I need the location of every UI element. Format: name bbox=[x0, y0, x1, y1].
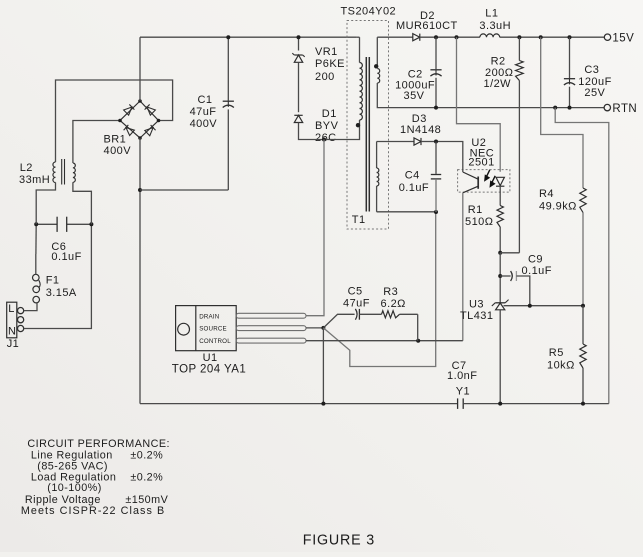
svg-text:47uF: 47uF bbox=[190, 106, 217, 118]
node source junction bbox=[321, 326, 325, 330]
svg-text:510Ω: 510Ω bbox=[465, 216, 493, 228]
wire source to bias return bbox=[323, 212, 435, 367]
svg-text:N: N bbox=[8, 325, 16, 337]
node bridge left vertex bbox=[118, 119, 122, 123]
svg-text:±0.2%: ±0.2% bbox=[130, 471, 163, 483]
diode D1 BYV26C bbox=[294, 115, 302, 122]
svg-text:2501: 2501 bbox=[468, 157, 494, 169]
node opto feed junction bbox=[455, 35, 459, 39]
svg-text:L2: L2 bbox=[20, 162, 33, 174]
svg-text:TOP 204 YA1: TOP 204 YA1 bbox=[172, 364, 246, 376]
svg-text:0.1uF: 0.1uF bbox=[522, 265, 552, 277]
capacitor C5 bbox=[355, 309, 357, 320]
wire TL431 ref line bbox=[504, 305, 584, 307]
svg-text:U1: U1 bbox=[203, 352, 218, 364]
wire fuse to C6 node bbox=[35, 254, 37, 274]
svg-text:C1: C1 bbox=[198, 94, 213, 106]
wire secondary top bbox=[376, 37, 378, 66]
svg-text:400V: 400V bbox=[190, 118, 218, 130]
svg-text:TS204Y02: TS204Y02 bbox=[341, 6, 397, 18]
wire secondary rail to D2 bbox=[377, 36, 413, 38]
capacitor C7 Y1 bbox=[457, 398, 459, 409]
node C3 bottom junction bbox=[568, 106, 572, 110]
node RTN to output-return junction bbox=[553, 106, 557, 110]
inductor L2 common-mode choke bbox=[53, 162, 56, 183]
node DC- / C1 return junction bbox=[138, 188, 142, 192]
node TL431 anode junction bbox=[498, 402, 502, 406]
svg-text:3.3uH: 3.3uH bbox=[479, 20, 511, 32]
wire primary top bbox=[357, 36, 360, 38]
wire source pin to junction bbox=[306, 327, 323, 329]
svg-text:VR1: VR1 bbox=[315, 46, 338, 58]
capacitor C9 bbox=[500, 275, 510, 277]
node clamp top junction bbox=[297, 35, 301, 39]
wire opto collector to bias node bbox=[436, 142, 463, 173]
node D3/C4/opto junction bbox=[434, 140, 438, 144]
terminal 15V bbox=[604, 34, 610, 40]
transformer T1 primary winding bbox=[360, 63, 363, 121]
resistor R1 bbox=[497, 206, 503, 228]
diode D2 MUR610CT bbox=[413, 34, 420, 41]
svg-text:Y1: Y1 bbox=[456, 386, 470, 398]
svg-text:DRAIN: DRAIN bbox=[199, 313, 219, 320]
transformer T1 core bbox=[365, 57, 367, 212]
node C3 top junction bbox=[568, 35, 572, 39]
wire secondary bottom to RTN rail bbox=[377, 83, 604, 108]
wire LED cathode to R1 bbox=[499, 186, 501, 205]
svg-text:FIGURE 3: FIGURE 3 bbox=[303, 532, 375, 548]
svg-text:RTN: RTN bbox=[612, 103, 637, 115]
svg-text:35V: 35V bbox=[404, 90, 425, 102]
node R4/R5 divider junction bbox=[581, 304, 585, 308]
optocoupler U2 dashed boundary bbox=[458, 170, 510, 193]
zener VR1 P6KE200 bbox=[294, 55, 302, 62]
connector J1 bbox=[7, 302, 17, 338]
wire VR1 to D1 bbox=[298, 62, 300, 112]
shunt regulator U3 TL431 bbox=[495, 302, 505, 304]
wire J1-N to C6 right node bbox=[24, 224, 92, 328]
wire C6 right to choke bbox=[73, 182, 92, 224]
optocoupler U2 light arrows bbox=[485, 170, 495, 187]
svg-text:±0.2%: ±0.2% bbox=[130, 449, 163, 461]
wire J1-L to fuse bbox=[24, 303, 37, 310]
fuse F1 bbox=[33, 296, 40, 303]
optocoupler U2 phototransistor bbox=[477, 177, 479, 189]
svg-text:R5: R5 bbox=[549, 347, 564, 359]
ic U1 drain pin bbox=[236, 313, 306, 318]
svg-text:C2: C2 bbox=[408, 68, 423, 80]
node drain junction bbox=[322, 138, 326, 142]
svg-text:Meets CISPR-22 Class B: Meets CISPR-22 Class B bbox=[21, 505, 165, 517]
node C6 left junction bbox=[34, 222, 38, 226]
svg-text:0.1uF: 0.1uF bbox=[51, 251, 81, 263]
wire TL431 anode to bottom rail bbox=[499, 310, 501, 404]
node bridge top vertex bbox=[138, 99, 142, 103]
svg-text:C5: C5 bbox=[348, 286, 363, 298]
svg-text:26C: 26C bbox=[315, 132, 337, 144]
wire to C9/TL431 bbox=[499, 253, 501, 303]
svg-text:(10-100%): (10-100%) bbox=[47, 482, 101, 494]
wire bridge bottom DC- down to source rail bbox=[139, 138, 141, 404]
svg-text:1.0nF: 1.0nF bbox=[447, 370, 477, 382]
svg-text:47uF: 47uF bbox=[343, 298, 370, 310]
capacitor C3 bbox=[569, 37, 571, 78]
node control / compensation junction bbox=[416, 339, 420, 343]
svg-text:C4: C4 bbox=[405, 170, 420, 182]
svg-text:F1: F1 bbox=[46, 274, 60, 286]
node R4 feed junction bbox=[539, 35, 543, 39]
svg-text:CIRCUIT PERFORMANCE:: CIRCUIT PERFORMANCE: bbox=[27, 438, 170, 450]
node bridge right vertex bbox=[157, 119, 161, 123]
optocoupler U2 LED bbox=[496, 177, 504, 185]
resistor R2 bbox=[518, 37, 520, 60]
svg-text:SOURCE: SOURCE bbox=[199, 326, 227, 333]
svg-text:25V: 25V bbox=[584, 87, 605, 99]
svg-text:CONTROL: CONTROL bbox=[199, 338, 231, 345]
wire drain node down to U1 drain pin bbox=[306, 140, 324, 316]
svg-text:BYV: BYV bbox=[315, 120, 339, 132]
node C9 right junction bbox=[528, 304, 532, 308]
node R5 bottom junction bbox=[581, 402, 585, 406]
svg-text:R1: R1 bbox=[468, 204, 483, 216]
ic U1 source pin bbox=[236, 326, 306, 331]
node C2 bottom junction bbox=[434, 106, 438, 110]
ic U1 control pin bbox=[236, 338, 306, 343]
node source rail junction bbox=[321, 402, 325, 406]
wire L2 left top to bridge right vertex bbox=[56, 80, 173, 162]
svg-text:200: 200 bbox=[315, 71, 335, 83]
svg-text:R3: R3 bbox=[383, 286, 398, 298]
wire R2 bottom link bbox=[500, 252, 519, 254]
inductor L1 bbox=[480, 34, 500, 37]
svg-text:P6KE: P6KE bbox=[315, 58, 345, 70]
svg-text:L1: L1 bbox=[485, 8, 498, 20]
wire opto emitter down to control line bbox=[462, 193, 464, 341]
capacitor C6 bbox=[36, 223, 57, 225]
svg-text:D3: D3 bbox=[412, 113, 427, 125]
wire D2 cathode to L1 bbox=[420, 36, 480, 38]
capacitor C4 bbox=[435, 142, 437, 174]
capacitor C1 bbox=[227, 37, 229, 100]
svg-text:MUR610CT: MUR610CT bbox=[396, 20, 458, 32]
wire bridge top to DC+ rail bbox=[139, 37, 141, 101]
node C1 top junction bbox=[226, 35, 230, 39]
wire RTN jog to right edge down bbox=[555, 108, 609, 404]
svg-text:D1: D1 bbox=[322, 108, 337, 120]
svg-text:TL431: TL431 bbox=[460, 310, 493, 322]
wire DC+ top rail bbox=[140, 36, 357, 38]
svg-text:J1: J1 bbox=[7, 338, 20, 350]
wire source down to primary ground rail bbox=[322, 328, 324, 404]
svg-text:BR1: BR1 bbox=[104, 134, 127, 146]
node bridge bottom vertex bbox=[138, 136, 142, 140]
wire pre-filter node to opto LED bbox=[457, 37, 501, 172]
transformer T1 dashed boundary bbox=[347, 21, 389, 230]
capacitor C2 bbox=[435, 37, 437, 69]
resistor R3 bbox=[359, 313, 381, 315]
terminal RTN bbox=[604, 104, 610, 110]
wire R4 bottom to ref node bbox=[582, 213, 584, 306]
node R1/R2 junction bbox=[498, 251, 502, 255]
transformer T1 bias winding bbox=[376, 142, 378, 169]
node C9 left junction bbox=[498, 274, 502, 278]
node bias C4 bottom junction bbox=[434, 210, 438, 214]
svg-text:6.2Ω: 6.2Ω bbox=[381, 298, 406, 310]
svg-text:49.9kΩ: 49.9kΩ bbox=[539, 201, 577, 213]
resistor R4 bbox=[580, 188, 586, 213]
node R2 top junction bbox=[517, 35, 521, 39]
svg-text:1/2W: 1/2W bbox=[484, 78, 512, 90]
wire clamp top bbox=[298, 37, 300, 50]
svg-text:C9: C9 bbox=[528, 253, 543, 265]
wire control pin line bbox=[306, 340, 463, 342]
svg-text:33mH: 33mH bbox=[19, 174, 50, 186]
svg-text:400V: 400V bbox=[104, 145, 132, 157]
wire bias winding to D3 bbox=[377, 141, 414, 143]
wire L1 to 15V terminal bbox=[500, 36, 605, 38]
wire L2 right top to bridge left vertex bbox=[73, 121, 120, 164]
ic U1 TOP204 package bbox=[176, 306, 237, 351]
svg-text:T1: T1 bbox=[352, 214, 366, 226]
wire R5 bottom bbox=[582, 368, 584, 404]
svg-text:3.15A: 3.15A bbox=[46, 287, 77, 299]
svg-text:10kΩ: 10kΩ bbox=[547, 360, 575, 372]
svg-text:C3: C3 bbox=[584, 64, 599, 76]
node primary phasing dot bbox=[356, 123, 360, 127]
wire C6 left to choke bbox=[36, 183, 55, 225]
wire R3 to control line bbox=[417, 314, 419, 340]
svg-text:0.1uF: 0.1uF bbox=[399, 182, 429, 194]
bridge rectifier BR1 bbox=[120, 101, 159, 138]
wire D3 cathode to node bbox=[421, 141, 436, 143]
wire divider to R5 bbox=[582, 306, 584, 344]
transformer T1 secondary winding bbox=[377, 69, 379, 84]
wire bias winding bottom bbox=[377, 211, 436, 213]
node C6 right junction bbox=[89, 222, 93, 226]
wire secondary ground rail bbox=[463, 403, 609, 405]
svg-text:R2: R2 bbox=[491, 56, 506, 68]
svg-text:L: L bbox=[8, 303, 15, 315]
wire R1 bottom bbox=[499, 227, 501, 253]
svg-text:R4: R4 bbox=[539, 188, 554, 200]
wire clamp bottom to primary bottom bbox=[299, 123, 360, 140]
svg-text:1N4148: 1N4148 bbox=[400, 124, 441, 136]
diode D3 1N4148 bbox=[414, 138, 421, 145]
resistor R5 bbox=[580, 344, 586, 368]
wire R4 feed from 15V rail bbox=[541, 37, 583, 188]
node secondary phasing dot bbox=[374, 64, 378, 68]
svg-text:15V: 15V bbox=[612, 32, 634, 44]
wire source to C5 bbox=[323, 314, 354, 328]
wire R2 bottom down to R1 node bbox=[518, 81, 520, 253]
node C2 top junction bbox=[434, 35, 438, 39]
wire primary ground rail bbox=[140, 403, 458, 405]
